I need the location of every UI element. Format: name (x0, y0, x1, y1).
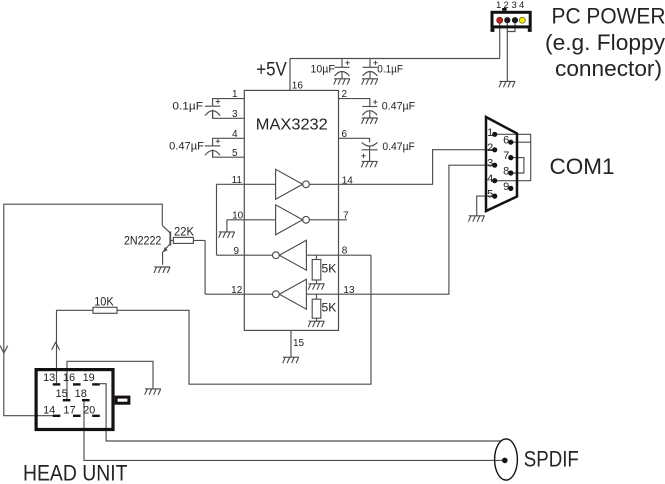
svg-text:10K: 10K (94, 295, 114, 309)
svg-text:3: 3 (232, 109, 238, 120)
svg-text:14: 14 (43, 405, 55, 417)
svg-text:0.1µF: 0.1µF (377, 64, 403, 76)
svg-text:15: 15 (55, 388, 67, 400)
svg-text:16: 16 (292, 80, 304, 91)
svg-text:4: 4 (519, 0, 524, 11)
svg-text:+5V: +5V (256, 58, 287, 80)
svg-text:10µF: 10µF (311, 64, 336, 76)
svg-text:1: 1 (487, 127, 493, 139)
svg-text:PC POWER: PC POWER (552, 4, 665, 29)
svg-text:SPDIF: SPDIF (524, 446, 579, 471)
svg-text:8: 8 (342, 245, 348, 256)
svg-text:2N2222: 2N2222 (124, 234, 162, 248)
svg-text:16: 16 (63, 372, 75, 384)
svg-text:9: 9 (503, 181, 509, 193)
svg-text:5K: 5K (322, 301, 337, 315)
svg-text:8: 8 (503, 166, 509, 178)
svg-text:7: 7 (343, 210, 349, 221)
svg-text:HEAD UNIT: HEAD UNIT (23, 460, 128, 484)
svg-text:(e.g. Floppy: (e.g. Floppy (545, 30, 665, 55)
svg-text:13: 13 (343, 285, 355, 296)
svg-text:MAX3232: MAX3232 (256, 117, 328, 134)
svg-text:17: 17 (63, 405, 75, 417)
svg-text:12: 12 (231, 285, 243, 296)
svg-text:6: 6 (503, 135, 509, 147)
svg-text:1: 1 (232, 89, 238, 100)
svg-text:15: 15 (293, 338, 305, 349)
svg-text:1: 1 (496, 0, 501, 11)
svg-text:0.47µF: 0.47µF (169, 140, 204, 152)
svg-text:18: 18 (75, 388, 87, 400)
svg-text:5: 5 (487, 188, 493, 200)
svg-text:4: 4 (487, 173, 493, 185)
svg-text:20: 20 (83, 405, 95, 417)
svg-text:connector): connector) (555, 56, 662, 81)
svg-text:4: 4 (232, 129, 238, 140)
svg-text:10: 10 (232, 210, 244, 221)
svg-text:14: 14 (342, 176, 354, 187)
svg-text:13: 13 (43, 372, 55, 384)
svg-text:7: 7 (503, 150, 509, 162)
svg-text:2: 2 (487, 142, 493, 154)
svg-text:2: 2 (342, 89, 348, 100)
svg-text:6: 6 (342, 129, 348, 140)
svg-text:2: 2 (504, 0, 509, 11)
svg-text:3: 3 (511, 0, 516, 11)
svg-text:COM1: COM1 (550, 154, 615, 179)
svg-text:19: 19 (83, 372, 95, 384)
svg-text:3: 3 (487, 158, 493, 170)
svg-text:0.1µF: 0.1µF (172, 100, 203, 112)
svg-text:0.47µF: 0.47µF (382, 100, 416, 112)
svg-text:9: 9 (233, 246, 239, 257)
svg-text:22K: 22K (174, 224, 194, 238)
svg-text:5K: 5K (322, 262, 337, 276)
svg-text:11: 11 (232, 175, 243, 186)
svg-text:0.47µF: 0.47µF (382, 141, 415, 153)
svg-text:5: 5 (232, 148, 238, 159)
